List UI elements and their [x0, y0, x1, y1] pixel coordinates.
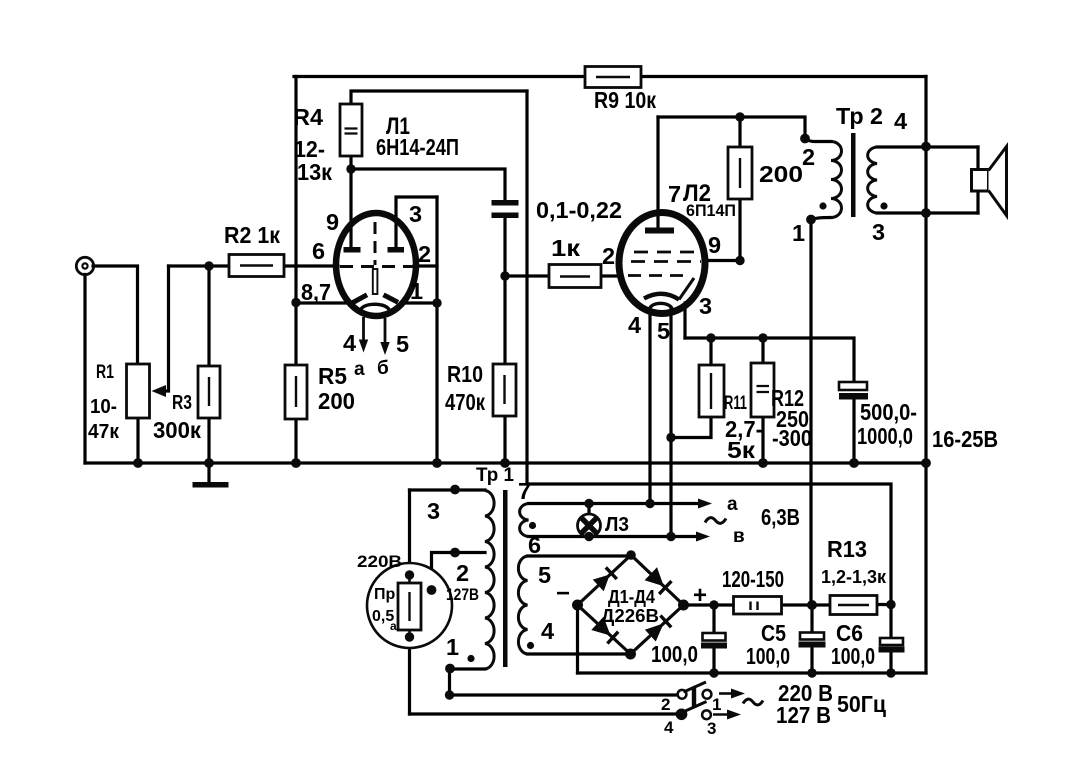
wire: Tr1 HV winding pin4 lead to bridge bottom — [528, 652, 631, 655]
svg-text:9: 9 — [326, 209, 339, 235]
terminal: Tr1 primary tap2 — [450, 548, 460, 558]
wire: ground rail — [85, 461, 927, 464]
junction: V2 grid node cap/1k/R10 — [500, 271, 509, 280]
wire: first filter cap bottom lead — [712, 648, 715, 673]
wire: R13 right lead to C6 node — [877, 603, 891, 606]
wire: V1 pin3 box from right anode over to grounded vertical — [396, 197, 437, 247]
mains switch B1 pole B contacts — [677, 702, 711, 720]
Tr2 secondary winding — [868, 147, 877, 213]
wire: 1k resistor to V2 grid pin 2 — [601, 274, 622, 277]
wire: V2 heater pin4 lead down to winding row a — [648, 309, 651, 504]
svg-text:470к: 470к — [445, 389, 485, 415]
terminal: fuse top — [405, 570, 414, 579]
tube V1 heater pin 4 stem and arrow — [362, 317, 365, 340]
svg-text:6: 6 — [528, 532, 541, 558]
svg-text:3: 3 — [427, 498, 440, 524]
fuse Pr 0.5A circle — [367, 563, 452, 648]
svg-text:R9 10к: R9 10к — [594, 87, 656, 113]
svg-text:2: 2 — [661, 695, 670, 714]
wire: heater row b from Tr1 pin6 with arrow — [529, 535, 701, 538]
junction: power rail at C5 — [807, 668, 816, 677]
wire: R4 top lead and B+ feed line to long vertical — [351, 91, 527, 104]
wire: V2 anode lead up from tube — [656, 117, 659, 231]
svg-text:220В: 220В — [357, 552, 402, 571]
svg-text:6: 6 — [312, 238, 325, 264]
svg-text:-300: -300 — [772, 425, 812, 451]
junction: cathode bus at R12 — [758, 333, 767, 342]
wire: cathode bus to big filter cap — [685, 338, 854, 382]
svg-text:+: + — [693, 582, 707, 609]
wire: V1 left anode lead into tube — [349, 169, 352, 247]
tube V1 (L1) envelope — [336, 213, 416, 316]
diode D2 top-right — [645, 567, 672, 594]
svg-text:300к: 300к — [153, 417, 201, 443]
junction: V2 pin5 on row b — [666, 532, 675, 541]
junction: ground rail at R1 — [133, 458, 143, 468]
svg-text:Д1-Д4: Д1-Д4 — [608, 587, 655, 607]
wire: Tr1 primary pin3 top lead to fuse vertical — [410, 488, 486, 491]
svg-text:3: 3 — [707, 719, 716, 738]
svg-text:6П14П: 6П14П — [686, 201, 736, 220]
wire: V1 pin1 row to grounded vertical — [401, 301, 437, 304]
junction: R11 bottom to heater line — [666, 433, 675, 442]
svg-text:100,0: 100,0 — [831, 643, 875, 669]
tube V2 bottom pinch — [649, 303, 673, 311]
wire: bottom power rail — [578, 671, 927, 674]
wire: Tr1 127V tap lead — [432, 553, 486, 589]
svg-text:−: − — [556, 580, 570, 607]
wire: grid line R2 to V1 grid pin 6 — [284, 264, 338, 267]
resistor R2 body — [229, 255, 284, 277]
svg-text:R13: R13 — [827, 536, 867, 562]
wire: V2 pin9 screen row — [705, 259, 740, 262]
svg-text:4: 4 — [628, 312, 641, 338]
wire: bridge minus vertex down to power rail — [576, 605, 579, 673]
svg-text:2: 2 — [802, 144, 815, 170]
resistor R9 body — [585, 67, 641, 88]
wire: V1 cathode lead pins 8,7 — [296, 301, 348, 304]
tube V1 center partition dashed — [374, 222, 377, 265]
wire: Tr2 pin1 vertical down to filter node — [809, 220, 812, 605]
tube V2 cathode dome — [644, 294, 679, 300]
svg-text:4: 4 — [664, 718, 674, 737]
wire: R3 top lead from grid node — [207, 266, 210, 366]
junction: lamp top on row a — [584, 499, 593, 508]
svg-text:4: 4 — [343, 330, 356, 356]
terminal: Tr1 primary pin3 — [450, 485, 460, 495]
svg-text:Тр 1: Тр 1 — [476, 465, 514, 486]
junction: V1 cathode node — [291, 298, 300, 307]
resistor R4 body — [340, 104, 362, 156]
mains switch B1 pole A contacts — [678, 682, 712, 699]
output transformer Tr2 primary winding — [831, 142, 842, 218]
junction: power rail at first cap — [709, 668, 718, 677]
svg-text:1,2-1,3к: 1,2-1,3к — [821, 567, 887, 587]
junction: power rail at C6 — [886, 668, 895, 677]
phase dot: Tr1 HV winding — [527, 642, 534, 649]
wire: ground symbol stem — [207, 463, 210, 482]
filter cap C5 plates — [799, 633, 826, 648]
filter cap C6 plates — [879, 638, 905, 653]
coupling capacitor C (0.1-0.22) plates — [492, 200, 519, 218]
wire: big filter cap bottom lead to ground rail — [852, 399, 855, 463]
junction: cathode bus at R11 — [706, 333, 715, 342]
tube V2 grid3 dashed row — [628, 274, 690, 277]
diode D1 top-left — [593, 567, 617, 591]
wire: R4 bottom lead to anode node — [349, 156, 352, 169]
wire: pin1 vertical to switch line — [450, 669, 678, 695]
wire: R12 top lead — [761, 338, 764, 363]
junction: speaker line at right rail top — [921, 142, 931, 152]
svg-text:4: 4 — [541, 618, 554, 644]
terminal: Tr2 pin1 — [806, 215, 816, 225]
junction: bridge right vertex — [678, 600, 689, 611]
diode D3 bottom-left — [591, 617, 618, 644]
heater row a arrow — [698, 499, 712, 509]
svg-text:2: 2 — [456, 560, 469, 586]
junction: speaker return at right rail — [921, 208, 931, 218]
svg-text:127 В: 127 В — [776, 702, 831, 728]
svg-text:5: 5 — [396, 331, 409, 357]
svg-text:3: 3 — [699, 293, 712, 319]
wire: R11 bottom lead jog to heater line — [671, 417, 711, 438]
resistor 200 (screen) body — [728, 147, 752, 199]
wire: bridge plus node to smoothing resistor — [684, 603, 734, 606]
svg-text:50Гц: 50Гц — [837, 691, 886, 717]
first filter cap 100.0 plates — [701, 633, 727, 649]
svg-text:R3: R3 — [172, 392, 192, 414]
junction: V2 screen at 200 resistor bottom — [735, 256, 744, 265]
junction: grid node R2/R3 — [204, 261, 213, 270]
wire: grid line from wiper to R2 — [169, 264, 230, 267]
wire: V2 heater pin5 lead down to winding row b — [669, 309, 672, 537]
pilot lamp L3 — [578, 514, 601, 537]
svg-text:3: 3 — [409, 201, 422, 227]
junction: bridge bottom vertex — [625, 649, 636, 660]
wire: Tr2 secondary pin4 to speaker — [877, 145, 978, 148]
wire: Tr1 primary pin1 lead — [450, 667, 485, 670]
svg-text:100,0: 100,0 — [651, 641, 698, 667]
tube V1 right anode plate — [388, 247, 405, 253]
wire: Tr2 secondary pin3 to speaker return — [877, 211, 978, 214]
svg-text:R11: R11 — [724, 393, 747, 414]
junction: R4 bottom anode node — [346, 164, 355, 173]
phase dot: Tr1 heater winding — [529, 522, 536, 529]
wire: V2 grid node to 1k resistor — [505, 274, 549, 277]
wire: screen resistor 200 bottom lead to pin 9 — [738, 199, 741, 261]
wire: R1 bottom lead to ground rail — [136, 418, 139, 463]
mains output arrow top — [719, 689, 745, 699]
svg-text:R2 1к: R2 1к — [224, 222, 280, 248]
svg-text:1к: 1к — [551, 235, 581, 261]
junction: filter node R13 left / C5 — [807, 600, 817, 610]
tube V1 cathode sleeve slot — [373, 269, 378, 294]
svg-text:200: 200 — [318, 388, 355, 414]
wire: top feedback rail from corner above R4 through R9 to right rail — [294, 75, 926, 78]
Tr1 core bar — [503, 490, 508, 667]
heater row b arrow — [696, 532, 710, 542]
wire: switch line from fuse — [410, 712, 678, 715]
wire: Tr2 pin2 lead into primary winding — [805, 136, 831, 142]
diode D4 bottom-right — [645, 616, 671, 642]
svg-text:100,0: 100,0 — [746, 643, 790, 669]
wire: lamp top lead — [587, 504, 590, 515]
junction: bridge left vertex — [572, 600, 583, 611]
svg-text:5: 5 — [538, 562, 551, 588]
wire: long B+ vertical from y91 line down to lower B+ line — [525, 91, 528, 484]
svg-text:2: 2 — [602, 243, 615, 269]
terminal: Tr1 primary pin1 — [445, 664, 455, 674]
wire: C6 bottom lead — [889, 652, 892, 673]
wire: R10 bottom lead to ground rail — [503, 416, 506, 463]
svg-text:3: 3 — [872, 219, 885, 245]
tube V2 anode plate — [645, 228, 674, 234]
tube V2 grid1 dashed row — [634, 251, 698, 254]
wire: heater row a from Tr1 pin7 with arrow — [529, 502, 703, 505]
wire: speaker frame verticals — [976, 147, 979, 213]
wire: C5 bottom lead — [810, 647, 813, 673]
svg-text:Тр 2: Тр 2 — [836, 103, 883, 129]
potentiometer R1 body — [127, 364, 150, 418]
terminal: Tr2 pin2 — [800, 134, 810, 144]
svg-text:7: 7 — [518, 478, 531, 504]
wire: R11 top lead — [709, 338, 712, 365]
svg-text:9: 9 — [708, 232, 721, 258]
svg-text:6Н14-24П: 6Н14-24П — [376, 134, 459, 160]
junction: ground rail at R12 — [758, 458, 768, 468]
tube V1 grid dashed row — [340, 265, 413, 268]
ground symbol — [193, 482, 229, 488]
wire: C5 top lead — [810, 605, 813, 633]
tube V1 left anode plate — [344, 247, 361, 253]
input jack X1 — [76, 257, 93, 274]
resistor R13 body — [830, 596, 877, 615]
tube V1 right cathode dash — [384, 295, 399, 303]
tube V2 suppressor tie — [679, 278, 694, 300]
junction: node R13 right / C6 — [886, 600, 895, 609]
Tr1 HV winding 5-4 — [518, 556, 527, 654]
junction: ground rail at R10 — [500, 458, 510, 468]
wire: C6 top lead — [889, 605, 892, 639]
junction: plus node at first filter cap — [709, 600, 718, 609]
phase dot: Tr2 primary — [819, 202, 826, 209]
phase dot: Tr2 secondary — [880, 202, 887, 209]
wire: smoothing resistor to R13 and C5 node — [782, 603, 831, 606]
mains switch mechanical link — [692, 687, 696, 708]
resistor R5 body — [285, 365, 307, 419]
mains AC squiggle — [743, 699, 763, 705]
svg-text:6,3В: 6,3В — [761, 504, 800, 530]
junction: ground rail right end — [921, 458, 931, 468]
wire: right rail from top rail down to bottom power rail — [924, 77, 927, 674]
svg-text:127В: 127В — [446, 585, 479, 604]
junction: pin1 line at switch wire — [445, 690, 454, 699]
svg-text:R10: R10 — [447, 361, 483, 387]
resistor R10 body — [493, 364, 516, 416]
wire: R3 bottom lead to ground rail — [207, 418, 210, 463]
smoothing resistor 120-150 body — [734, 597, 782, 615]
svg-text:Пр: Пр — [374, 586, 396, 603]
wire: mains vertical through fuse down to switch line — [408, 490, 411, 714]
wire: Tr1 HV winding pin5 lead to bridge top — [528, 554, 632, 557]
svg-text:б: б — [377, 358, 389, 379]
wire: Tr2 primary pin1 lead — [811, 218, 831, 221]
svg-text:1: 1 — [792, 220, 805, 246]
tube V2 grid2 dashed row — [631, 260, 701, 263]
wire: anode line to output transformer pin 2 — [658, 117, 805, 135]
svg-text:4: 4 — [894, 108, 907, 134]
svg-text:7: 7 — [668, 181, 681, 207]
svg-text:1: 1 — [410, 278, 423, 304]
junction: lamp bottom on row b — [584, 532, 593, 541]
svg-text:Л3: Л3 — [605, 514, 629, 536]
terminal: Tr1 127V open end — [427, 585, 437, 595]
junction: ground rail at R3 — [204, 458, 214, 468]
tube V1 left cathode dash — [352, 295, 367, 303]
resistor R3 body — [198, 366, 220, 418]
svg-text:а: а — [354, 359, 365, 380]
svg-text:500,0-: 500,0- — [860, 399, 917, 425]
wire: V1 pin2 row to grounded vertical — [414, 264, 437, 267]
resistor R12 body — [751, 363, 774, 417]
svg-text:200: 200 — [759, 161, 803, 187]
svg-text:120-150: 120-150 — [722, 566, 784, 592]
svg-text:R5: R5 — [318, 363, 347, 389]
wire: R10 top lead from V2 grid node — [503, 276, 506, 364]
svg-text:8,7: 8,7 — [301, 279, 331, 305]
wire: input jack to R1 top corner — [93, 266, 138, 364]
speaker Gr1 — [972, 147, 1007, 216]
resistor R11 body — [699, 365, 724, 417]
wire: anode node horizontal to coupling cap — [351, 169, 505, 200]
tube V2 (L2) envelope — [619, 213, 705, 314]
svg-text:а: а — [390, 619, 397, 633]
wire: screen resistor 200 top lead — [738, 117, 741, 147]
Tr2 core bar — [851, 133, 856, 217]
power transformer Tr1 primary winding — [485, 491, 494, 670]
wire: R12 bottom lead to ground rail — [761, 417, 764, 463]
junction: bridge top vertex — [626, 550, 636, 560]
svg-text:10-: 10- — [90, 396, 117, 418]
mains output arrow bottom — [713, 710, 741, 720]
svg-text:Д226В: Д226В — [601, 606, 659, 626]
junction: ground rail at R5 — [291, 458, 301, 468]
electrolytic cap 500.0-1000.0 plates — [839, 382, 868, 400]
wire: V2 cathode pin3 lead down — [683, 303, 686, 338]
svg-text:1: 1 — [712, 695, 721, 714]
svg-text:R4: R4 — [293, 104, 323, 130]
junction: V2 anode line at 200 resistor — [735, 112, 744, 121]
phase dot: Tr1 primary — [467, 655, 474, 662]
tube V1 heater pin 5 stem and arrow — [384, 318, 387, 343]
junction: V1 pin1 to grounded vertical — [432, 298, 441, 307]
fuse element body — [398, 575, 421, 640]
diode bridge D1-D4 diamond edges — [578, 555, 684, 654]
svg-text:5: 5 — [657, 318, 670, 344]
svg-text:0,1-0,22: 0,1-0,22 — [536, 197, 622, 223]
junction: ground rail at big cap — [849, 458, 859, 468]
wire: coupling cap bottom lead down to grid node of V2 — [503, 218, 506, 276]
potentiometer R1 wiper arrow — [152, 385, 167, 397]
wire: jack sleeve down to ground rail — [83, 275, 86, 464]
tube V1 bottom pinch — [360, 304, 390, 312]
svg-text:5к: 5к — [727, 437, 755, 463]
svg-text:16-25В: 16-25В — [932, 426, 998, 452]
wire: R5 bottom lead to ground rail — [294, 419, 297, 463]
wire: grounded vertical for unused triode pins down to ground rail — [435, 197, 438, 463]
wire: feedback vertical from top rail down to V1 cathode node and R5 — [294, 77, 297, 366]
wire: R1 wiper riser to grid line — [165, 266, 169, 391]
svg-text:2: 2 — [418, 241, 431, 267]
Tr1 heater winding 7-6 — [520, 504, 529, 537]
resistor 1k body — [549, 265, 601, 288]
svg-text:47к: 47к — [88, 421, 120, 443]
svg-text:13к: 13к — [297, 159, 332, 185]
svg-text:R1: R1 — [96, 362, 114, 383]
wire: lower B+ line to right corner down to R13 right node — [527, 484, 891, 605]
junction: ground rail at grounded vertical — [432, 458, 442, 468]
svg-text:1: 1 — [446, 634, 459, 660]
wire: first filter cap top lead — [712, 605, 715, 633]
junction: V2 pin4 on row a — [645, 499, 654, 508]
heater AC squiggle — [705, 518, 726, 524]
svg-text:в: в — [733, 526, 745, 547]
svg-text:а: а — [727, 494, 738, 515]
terminal: fuse bottom — [405, 632, 414, 641]
svg-text:1000,0: 1000,0 — [857, 423, 913, 449]
